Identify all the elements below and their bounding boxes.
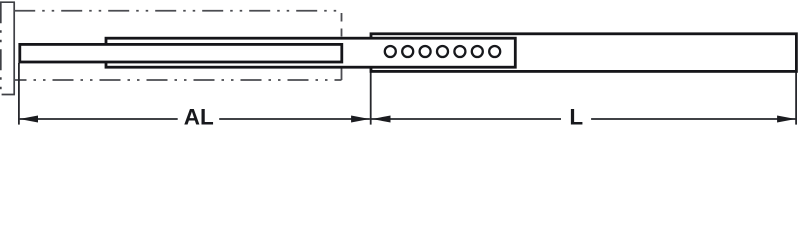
svg-text:AL: AL	[184, 105, 214, 128]
drawer rail (inner profile)	[20, 44, 342, 62]
dimension L arrow left	[372, 115, 391, 122]
mounting hole 4	[437, 46, 448, 57]
mounting hole 6	[472, 46, 483, 57]
dimension AL arrow left	[20, 115, 39, 122]
phantom line right vertical	[341, 13, 343, 80]
dimension L line	[371, 118, 795, 120]
mounting hole 1	[385, 46, 396, 57]
drawer front panel (phantom outline)	[0, 2, 15, 94]
extension line middle (shared AL/L)	[370, 66, 372, 125]
dimension AL line	[20, 118, 370, 120]
svg-text:L: L	[569, 105, 583, 128]
dimension AL arrow right	[351, 115, 370, 122]
phantom line bottom	[14, 79, 341, 81]
phantom line top (drawer extended outline)	[14, 10, 341, 12]
mounting hole 5	[454, 46, 465, 57]
extension line left (AL)	[18, 63, 20, 125]
mounting hole 2	[402, 46, 413, 57]
mounting hole 3	[420, 46, 431, 57]
mounting hole 7	[489, 46, 500, 57]
front panel left edge (dash-dot-dot)	[0, 2, 2, 94]
extension line right (L)	[795, 68, 797, 125]
intermediate rail	[106, 38, 515, 67]
cabinet rail (outer profile)	[371, 34, 796, 72]
dimension L arrow right	[777, 115, 796, 122]
